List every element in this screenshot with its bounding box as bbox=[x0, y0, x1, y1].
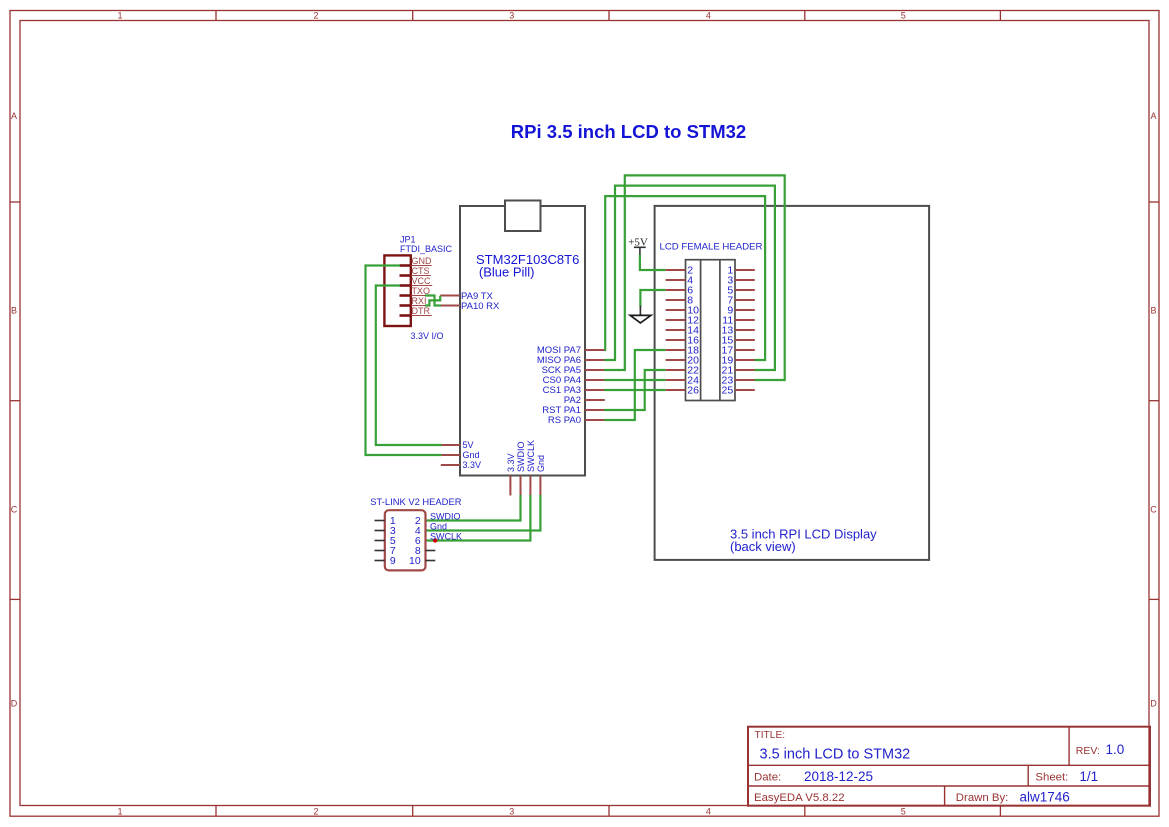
wire JP1.VCC to STM32.5V bbox=[376, 286, 442, 446]
ST-LINK pin 10 bbox=[409, 555, 435, 567]
ST-LINK pin 6 bbox=[415, 535, 421, 547]
wire SCK PA5 to LCD pin 23 bbox=[604, 175, 784, 380]
svg-text:1: 1 bbox=[117, 806, 122, 816]
ST-LINK pin 4 bbox=[415, 525, 421, 537]
svg-text:EasyEDA V5.8.22: EasyEDA V5.8.22 bbox=[754, 792, 845, 804]
ruler letters left A-D bbox=[11, 111, 18, 708]
JP1 pin 5 RXI bbox=[400, 296, 428, 306]
LCD header pin 11 bbox=[722, 315, 755, 327]
ST-LINK pin 2 bbox=[415, 515, 421, 527]
MCU pin RS PA0 bbox=[548, 415, 605, 426]
JP1 pin 6 DTR bbox=[400, 306, 432, 316]
LCD header pin 5 bbox=[727, 285, 754, 297]
JP1 pin 4 TXO bbox=[400, 286, 433, 296]
svg-text:10: 10 bbox=[409, 555, 421, 567]
svg-text:4: 4 bbox=[706, 11, 711, 21]
wire +5V to LCD pin 2 bbox=[640, 255, 666, 270]
svg-text:1: 1 bbox=[117, 11, 122, 21]
svg-text:SWCLK: SWCLK bbox=[430, 531, 462, 541]
LCD header pin 15 bbox=[722, 335, 755, 347]
svg-text:TITLE:: TITLE: bbox=[755, 730, 786, 741]
junction dot at ST-LINK pin 6 bbox=[433, 538, 437, 542]
svg-text:(back view): (back view) bbox=[730, 539, 796, 554]
wire STM32.SWCLK to ST-LINK pin 6 bbox=[426, 495, 530, 541]
svg-text:Date:: Date: bbox=[754, 772, 781, 784]
ruler numbers top 1-5 bbox=[117, 11, 905, 21]
svg-text:3: 3 bbox=[509, 11, 514, 21]
ST-LINK header body bbox=[385, 510, 426, 570]
svg-text:B: B bbox=[11, 306, 17, 316]
ST-LINK pin 1 bbox=[375, 515, 396, 527]
MCU pin CS1 PA3 bbox=[543, 385, 605, 396]
svg-text:(Blue Pill): (Blue Pill) bbox=[479, 264, 535, 279]
svg-text:3.3V: 3.3V bbox=[506, 453, 516, 472]
wire JP1.RXI to STM32.PA9 TX bbox=[425, 296, 440, 306]
MCU pin Gnd bbox=[441, 450, 480, 460]
JP1 pin 2 CTS bbox=[400, 266, 431, 276]
LCD display caption bbox=[730, 527, 877, 554]
svg-text:Gnd: Gnd bbox=[463, 450, 480, 460]
title block outline bbox=[748, 727, 1150, 806]
svg-text:1/1: 1/1 bbox=[1079, 769, 1098, 784]
svg-text:LCD FEMALE HEADER: LCD FEMALE HEADER bbox=[660, 241, 763, 252]
ruler ticks left bbox=[10, 202, 20, 599]
svg-text:FTDI_BASIC: FTDI_BASIC bbox=[400, 244, 453, 254]
MCU pin PA10 RX bbox=[440, 301, 500, 312]
LCD header pin 6 bbox=[666, 285, 694, 297]
svg-text:B: B bbox=[1150, 306, 1156, 316]
MCU pin SCK PA5 bbox=[542, 365, 605, 376]
svg-text:3.5 inch LCD to STM32: 3.5 inch LCD to STM32 bbox=[760, 747, 911, 763]
wire RS PA0 to LCD pin 18 bbox=[604, 350, 665, 420]
LCD header pin 17 bbox=[722, 345, 755, 357]
svg-text:SWCLK: SWCLK bbox=[526, 440, 536, 472]
svg-text:2: 2 bbox=[313, 11, 318, 21]
MCU pin CS0 PA4 bbox=[543, 375, 605, 386]
LCD header pin 4 bbox=[666, 275, 694, 287]
ST-LINK pin 9 bbox=[375, 555, 396, 567]
wire RST PA1 to LCD pin 22 bbox=[604, 370, 665, 410]
svg-text:Gnd: Gnd bbox=[430, 521, 447, 531]
ruler ticks bottom bbox=[216, 806, 1000, 817]
MCU pin 5V bbox=[441, 440, 474, 450]
svg-text:25: 25 bbox=[722, 385, 734, 397]
LCD header pin 19 bbox=[722, 355, 755, 367]
svg-text:Sheet:: Sheet: bbox=[1035, 772, 1068, 784]
MCU pin MOSI PA7 bbox=[537, 345, 605, 356]
LCD header pin 12 bbox=[666, 315, 700, 327]
LCD header pin 16 bbox=[666, 335, 700, 347]
MCU U? STM32 body bbox=[460, 206, 585, 476]
JP1 pin 1 GND bbox=[400, 256, 433, 266]
svg-text:A: A bbox=[11, 111, 17, 121]
LCD header pin 1 bbox=[727, 265, 754, 277]
LCD header pin 10 bbox=[666, 305, 700, 317]
svg-text:3.3V I/O: 3.3V I/O bbox=[410, 331, 443, 341]
wire MOSI PA7 to LCD pin 19 bbox=[604, 196, 765, 360]
wire JP1.TXO to STM32.PA10 RX bbox=[425, 296, 441, 306]
MCU pin MISO PA6 bbox=[537, 355, 605, 366]
ST-LINK pin 7 bbox=[375, 545, 396, 557]
svg-text:VCC: VCC bbox=[412, 276, 432, 286]
svg-text:ST-LINK V2 HEADER: ST-LINK V2 HEADER bbox=[370, 496, 461, 507]
svg-text:2: 2 bbox=[313, 806, 318, 816]
connector JP1 body bbox=[384, 255, 410, 326]
LCD header pin 9 bbox=[727, 305, 754, 317]
wire STM32.SWDIO to ST-LINK pin 2 bbox=[426, 495, 521, 521]
MCU pin 3.3V bbox=[441, 460, 481, 470]
LCD header pin 23 bbox=[722, 375, 755, 387]
svg-text:alw1746: alw1746 bbox=[1020, 790, 1070, 805]
svg-text:RS PA0: RS PA0 bbox=[548, 415, 581, 426]
LCD header pin 20 bbox=[666, 355, 700, 367]
MCU top notch bbox=[505, 201, 541, 232]
svg-text:CTS: CTS bbox=[412, 266, 430, 276]
MCU pin PA2 bbox=[564, 395, 605, 406]
wire JP1.GND to STM32.Gnd bbox=[366, 266, 442, 456]
LCD header pin 2 bbox=[666, 265, 694, 277]
LCD header pin 14 bbox=[666, 325, 700, 337]
svg-text:SWDIO: SWDIO bbox=[516, 442, 526, 473]
wire LCD pin 6 to ground bbox=[640, 290, 665, 307]
LCD female header body bbox=[686, 260, 736, 401]
svg-text:3: 3 bbox=[509, 806, 514, 816]
ruler letters right A-D bbox=[1150, 111, 1157, 708]
svg-text:3.3V: 3.3V bbox=[463, 460, 482, 470]
svg-text:5: 5 bbox=[901, 806, 906, 816]
MCU pin PA9 TX bbox=[440, 291, 493, 302]
ruler numbers bottom 1-5 bbox=[117, 806, 905, 816]
wire CS1 PA3 to LCD pin 26 bbox=[604, 389, 665, 391]
svg-text:26: 26 bbox=[687, 385, 699, 397]
svg-text:2018-12-25: 2018-12-25 bbox=[804, 769, 873, 784]
LCD display outline box bbox=[655, 206, 930, 560]
svg-text:A: A bbox=[1150, 111, 1156, 121]
LCD header pin 3 bbox=[727, 275, 754, 287]
JP1 pin 3 VCC bbox=[400, 276, 433, 286]
wire MISO PA6 to LCD pin 21 bbox=[604, 186, 775, 370]
LCD header pin 26 bbox=[666, 385, 700, 397]
svg-text:RXI: RXI bbox=[412, 296, 427, 306]
wire CS0 PA4 to LCD pin 24 bbox=[604, 379, 665, 381]
svg-text:RPi 3.5 inch LCD to STM32: RPi 3.5 inch LCD to STM32 bbox=[511, 121, 746, 142]
ST-LINK pin 3 bbox=[375, 525, 396, 537]
svg-text:Drawn By:: Drawn By: bbox=[956, 792, 1009, 804]
svg-text:4: 4 bbox=[706, 806, 711, 816]
MCU bottom pin SWDIO bbox=[516, 442, 526, 496]
title block dividers bbox=[748, 727, 1150, 806]
svg-text:JP1: JP1 bbox=[400, 234, 416, 244]
ST-LINK pin 8 bbox=[415, 545, 435, 557]
ruler ticks top bbox=[216, 11, 1000, 21]
LCD header pin 7 bbox=[727, 295, 754, 307]
svg-text:D: D bbox=[11, 699, 18, 709]
MCU bottom pin Gnd bbox=[536, 455, 546, 496]
svg-text:9: 9 bbox=[390, 555, 396, 567]
svg-text:5: 5 bbox=[901, 11, 906, 21]
svg-text:C: C bbox=[11, 504, 18, 514]
MCU bottom pin 3.3V bbox=[506, 453, 516, 495]
LCD header pin 13 bbox=[722, 325, 755, 337]
svg-text:D: D bbox=[1150, 699, 1157, 709]
power flag +5V bbox=[628, 237, 648, 256]
MCU bottom pin SWCLK bbox=[526, 440, 536, 496]
LCD header pin 25 bbox=[722, 385, 755, 397]
ruler ticks right bbox=[1149, 202, 1159, 599]
svg-text:1.0: 1.0 bbox=[1106, 742, 1125, 757]
svg-text:REV:: REV: bbox=[1076, 745, 1100, 757]
LCD header pin 24 bbox=[666, 375, 700, 387]
svg-text:PA10 RX: PA10 RX bbox=[461, 301, 500, 312]
LCD header pin 21 bbox=[722, 365, 755, 377]
ST-LINK pin 5 bbox=[375, 535, 396, 547]
svg-text:5V: 5V bbox=[463, 440, 474, 450]
svg-text:C: C bbox=[1150, 504, 1157, 514]
svg-text:GND: GND bbox=[412, 256, 433, 266]
svg-text:SWDIO: SWDIO bbox=[430, 511, 461, 521]
wire STM32.Gnd to ST-LINK pin 4 bbox=[426, 495, 540, 531]
ground symbol bbox=[630, 306, 651, 323]
LCD header pin 22 bbox=[666, 365, 700, 377]
svg-text:DTR: DTR bbox=[412, 306, 431, 316]
svg-text:Gnd: Gnd bbox=[536, 455, 546, 472]
LCD header pin 8 bbox=[666, 295, 694, 307]
MCU pin RST PA1 bbox=[542, 405, 605, 416]
LCD header pin 18 bbox=[666, 345, 700, 357]
